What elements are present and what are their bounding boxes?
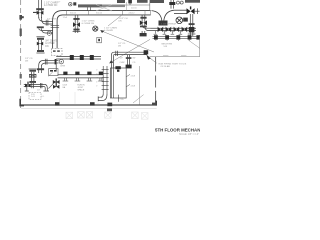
riser R5 lower extension — [142, 31, 145, 36]
wall west corner L — [20, 99, 24, 106]
grid line A (dashed column line) — [20, 0, 22, 108]
west wall dashed (x155.6) — [155, 57, 157, 105]
horizontal pipe H5 (y52.5) — [114, 51, 147, 56]
pump P1 circle — [93, 26, 98, 31]
stub right vertical line — [118, 95, 120, 102]
svg-text:SPACE: SPACE — [77, 88, 85, 91]
top equipment bar (dark band) — [78, 4, 102, 7]
valve VX right (dark bowtie) — [187, 6, 195, 14]
manifold M1 labels — [60, 63, 65, 67]
door marks on south line — [163, 54, 186, 56]
riser R5 dumbbell (under duct junction) — [140, 15, 146, 25]
cap box dark marks — [53, 50, 60, 51]
door block 3 — [107, 103, 112, 107]
dark label blob 2 — [137, 0, 148, 3]
riser R1 valve — [33, 11, 43, 15]
wall chunk on grid line upper — [19, 15, 23, 20]
damper block — [73, 2, 76, 5]
H5 left elbow down — [111, 52, 114, 68]
riser R4 centre (pipe w/ valve under duct) — [73, 15, 81, 33]
wall vertical line x139.5 — [139, 66, 141, 105]
long leader diagonal D2 — [100, 30, 154, 52]
svg-text:& CHWR DN: & CHWR DN — [44, 5, 58, 7]
damper box small (x98) — [97, 37, 102, 42]
shaft rectangle — [110, 68, 126, 98]
ladder left tiny labels — [96, 69, 98, 87]
svg-text:3/4": 3/4" — [132, 58, 136, 60]
svg-text:DN: DN — [119, 20, 123, 22]
junction arcs at duct end — [152, 10, 187, 21]
R5 lower dark flange — [140, 33, 147, 36]
riser R3 union cross — [30, 75, 36, 77]
D3 arrowhead — [109, 60, 113, 63]
riser R2 valve — [37, 42, 43, 46]
M2 drops with feet — [154, 31, 183, 35]
elbow EL2 bottom (to horizontal stub) — [98, 94, 107, 101]
twin gauges circles — [176, 1, 183, 4]
duct flange ticks on vertical — [51, 26, 60, 28]
text pair centre (y43) — [118, 43, 126, 47]
top-right dark label block 1 — [150, 0, 164, 3]
junction feed vertical line — [149, 3, 151, 11]
window mullion blocks — [154, 35, 200, 39]
room south line (y56.5) — [150, 56, 201, 58]
ghost furniture g1 — [66, 112, 73, 118]
D2 diffuser taps (dark squares) — [63, 72, 103, 75]
short vertical duct connector — [87, 7, 90, 10]
riser stub with stem — [128, 0, 132, 5]
D2 drops with feet — [63, 78, 104, 81]
dark cap blob 1 — [117, 0, 125, 3]
svg-text:DN: DN — [118, 45, 122, 47]
riser R4 valve — [73, 22, 80, 27]
flow circle on branch E3 — [59, 60, 63, 64]
riser R4 label text — [82, 21, 95, 26]
crossing brace X — [96, 5, 112, 11]
svg-text:1/2": 1/2" — [120, 58, 124, 60]
wall chunk on grid line mid — [20, 29, 22, 37]
below-wall dark stub — [107, 108, 112, 111]
pipe after valve VX — [195, 8, 200, 14]
riser R3 dumbbell (lower-left) — [29, 69, 37, 83]
junction dark equipment blob — [159, 21, 168, 26]
main duct horizontal run — [63, 11, 151, 15]
M2 label text above — [161, 24, 177, 26]
svg-text:DN: DN — [45, 46, 49, 48]
ghost furniture g5 — [132, 112, 139, 119]
note text: run piping tight — [159, 64, 187, 69]
shaft inner vertical pair — [111, 68, 113, 98]
dark valve V3 on run H3 — [25, 82, 31, 88]
shaft side tick 2 — [126, 84, 136, 87]
svg-text:22x10: 22x10 — [131, 8, 138, 10]
ghost furniture g6 — [141, 113, 148, 120]
manifold M2 (right, y28) — [151, 28, 197, 30]
ghost furniture g2 — [78, 112, 85, 118]
leader D1 to duct — [108, 15, 122, 26]
svg-text:CHW: CHW — [60, 65, 65, 67]
shaft side tick 1 — [126, 74, 136, 77]
duct seam ticks — [67, 10, 151, 15]
horizontal run H3 with valves — [24, 83, 49, 91]
riser R5 valve — [140, 20, 147, 25]
svg-text:& CHWR DN: & CHWR DN — [82, 23, 95, 25]
riser R1 pipe (top-left) — [39, 0, 42, 18]
svg-text:SCALE: 1/8" = 1'-0": SCALE: 1/8" = 1'-0" — [179, 133, 199, 136]
room name text — [162, 43, 173, 48]
equipment box EQ1 (left of D2) — [49, 69, 58, 76]
elbow E1 to horizontal branch — [39, 17, 53, 26]
wall east corner — [152, 101, 156, 106]
elbow E2 second horizontal branch — [37, 26, 53, 33]
riser R6 right end — [188, 14, 196, 36]
manifold M1 upper (y57) — [56, 57, 101, 70]
ghost furniture g3 — [86, 112, 92, 118]
vent pipe with tap — [169, 0, 175, 9]
svg-text:24x: 24x — [120, 99, 123, 101]
duct size text labels — [70, 13, 135, 15]
riser R1 label text — [44, 2, 58, 7]
svg-text:5TH FLOOR MECHAN: 5TH FLOOR MECHAN — [155, 128, 200, 133]
drop pipe with valve (x128) — [126, 55, 132, 68]
wall echo light line — [21, 108, 157, 110]
P2 discharge dark — [183, 18, 188, 22]
valve tick on branch E3 — [55, 59, 57, 64]
text block T2 under D2 — [77, 85, 85, 92]
riser ladder L1 (x103-107) — [102, 66, 109, 94]
svg-text:30x12: 30x12 — [70, 13, 77, 15]
door block 2 — [90, 102, 95, 105]
svg-text:OF SLAB: OF SLAB — [161, 65, 171, 68]
mullion ticks below — [156, 40, 190, 41]
flow meter circle on branch E2 — [47, 31, 51, 35]
drop valve dark — [126, 65, 132, 69]
dashed equipment box CD — [29, 92, 41, 99]
pump P2 circle w/ cross — [176, 17, 183, 24]
riser R6 dark valve — [189, 27, 195, 32]
fan F1 circle — [69, 3, 72, 6]
svg-text:DN: DN — [25, 61, 29, 63]
thin vertical line x127 — [126, 2, 128, 11]
wall chunk on grid line lower — [20, 74, 22, 79]
ghost furniture g4 — [105, 112, 111, 118]
riser R1 flange — [36, 8, 44, 10]
riser R2 dumbbell (left mid) — [36, 37, 44, 53]
top-right dark label block 2 — [185, 0, 200, 3]
shaft top dark cluster — [115, 66, 120, 72]
diagonal near x139 — [133, 95, 144, 103]
duct branch note text — [119, 18, 128, 22]
elbow E3 with horizontal branch — [37, 59, 59, 73]
svg-text:1 1/4" CHWS&R: 1 1/4" CHWS&R — [161, 24, 177, 26]
leader arrow to pipe cluster — [146, 55, 156, 64]
M2 bowtie valves — [158, 27, 188, 33]
door block 1 — [55, 102, 60, 105]
tiny labels around H5 — [120, 58, 137, 64]
svg-text:1/2": 1/2" — [37, 89, 41, 91]
diagonal at right edge — [189, 40, 201, 48]
R5 elbow into manifold M2 — [140, 25, 151, 31]
leader D1 text — [104, 28, 117, 33]
right edge line — [199, 36, 201, 56]
manifold M1 dark valves — [70, 55, 94, 60]
pump cluster PC1 (dark) — [53, 78, 60, 88]
EQ1 leader diagonal — [48, 72, 53, 77]
window wall row (y36-39) — [153, 36, 201, 38]
svg-text:& CHWR: & CHWR — [104, 30, 113, 32]
main duct left elbow — [53, 11, 63, 49]
dashed box CD text — [31, 94, 36, 98]
H5 right dark flange — [144, 50, 149, 54]
svg-text:CHW: CHW — [120, 62, 125, 64]
PC1 inlet diagonal — [48, 84, 53, 89]
svg-text:1 1/2": 1 1/2" — [55, 1, 61, 3]
duct run D2 with diffuser taps (y75) — [58, 75, 104, 78]
dashed cap box on vertical duct — [52, 49, 62, 56]
svg-text:30x12: 30x12 — [96, 13, 103, 15]
svg-text:24x12: 24x12 — [129, 13, 136, 15]
text block T1 under D2 — [62, 85, 67, 89]
R5 label text — [0, 0, 1, 1]
branch B3 label text (left) — [25, 58, 33, 62]
top equipment bar continuation line — [125, 4, 150, 6]
faint vertical guides above wall — [60, 92, 98, 104]
leader diagonal D3 (to window row) — [111, 39, 150, 62]
south wall line (y105) — [21, 104, 157, 106]
riser R2 label text — [45, 41, 57, 48]
svg-text:3/4" CHW: 3/4" CHW — [47, 18, 56, 20]
